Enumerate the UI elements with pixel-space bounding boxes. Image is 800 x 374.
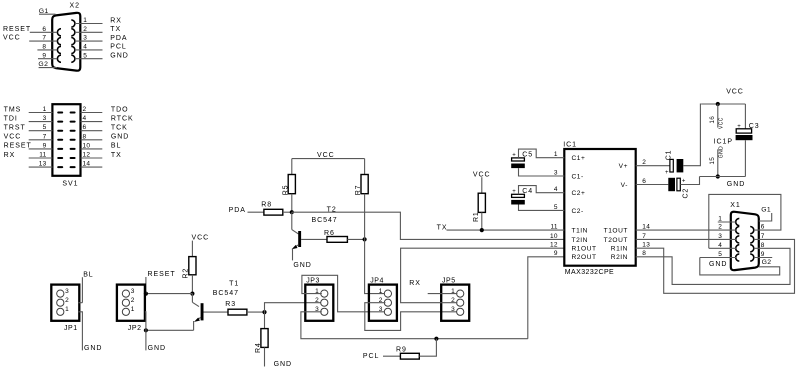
IC1 pin 13 R1IN: [611, 242, 650, 253]
svg-text:G2: G2: [38, 61, 48, 68]
X2 pin 5 contact: [71, 55, 75, 62]
node RESET junction at JP2: [144, 292, 148, 296]
X2 pin 7 contact: [57, 38, 61, 45]
net label RX: [4, 152, 16, 159]
IC1 value MAX3232CPE: [565, 269, 614, 276]
IC1 pin 12 R1OUT: [550, 242, 597, 253]
wire C4 minus to IC1 pin 5: [519, 205, 565, 211]
svg-text:GND: GND: [84, 345, 102, 352]
SV1 pin 3 wire: [29, 115, 53, 122]
capacitor C5: [511, 152, 533, 168]
wire T1 emitter to JP2 GND: [146, 329, 194, 331]
svg-text:4: 4: [83, 115, 87, 122]
X1 pin 6 contact: [750, 227, 754, 234]
SV1 pin 1 pad: [57, 112, 63, 114]
SV1 pin 12 pad: [70, 157, 76, 159]
X2 shield pin G2: [38, 61, 57, 68]
svg-text:GND: GND: [718, 146, 724, 158]
wire IC1 pin 14 to X1 pin 2: [636, 224, 736, 231]
SV1 pin 8 pad: [70, 139, 76, 141]
svg-text:R1OUT: R1OUT: [572, 246, 597, 253]
SV1 pin 14 wire: [81, 161, 103, 168]
svg-text:8: 8: [642, 250, 646, 257]
svg-text:GND: GND: [110, 53, 128, 60]
net label TMS: [4, 106, 22, 113]
resistor R4: [255, 329, 268, 353]
resistor R9: [396, 346, 419, 359]
svg-text:6: 6: [761, 224, 765, 231]
svg-text:10: 10: [550, 233, 558, 240]
X2 pin 6 wire / net RESET: [3, 26, 57, 33]
svg-text:+: +: [512, 152, 516, 158]
IC1 pin 9 R2OUT: [554, 250, 597, 261]
net label TDO: [111, 106, 129, 113]
junction R9 on PCL rail: [434, 337, 438, 341]
SV1 pin 6 wire: [81, 124, 103, 131]
SV1 pin 8 wire: [81, 133, 103, 140]
net label PDA: [110, 35, 127, 42]
wire X1 pin 5 to GND / G2: [700, 251, 780, 275]
svg-text:2: 2: [131, 297, 135, 304]
svg-text:7: 7: [42, 35, 46, 42]
svg-text:TCK: TCK: [111, 125, 128, 132]
svg-text:RESET: RESET: [3, 26, 31, 33]
wire C5 minus to IC1 pin 3: [519, 168, 565, 176]
svg-text:R9: R9: [396, 346, 407, 353]
power symbol IC1P designator: [714, 138, 733, 145]
X2 pin 4 contact: [71, 46, 75, 53]
IC1 pin 5 C2-: [554, 204, 584, 215]
net label VCC (T1 stage): [192, 235, 210, 242]
wire T2 base to R6: [301, 238, 327, 240]
wire C5 plus to IC1 pin 1: [519, 149, 565, 158]
wire R3 to node D: [247, 311, 265, 313]
net label PDA: [229, 207, 246, 214]
net label RESET (JP2): [146, 271, 176, 293]
SV1 pin 7 wire: [29, 133, 53, 140]
wire R1OUT to JP5 pin 2: [401, 248, 565, 303]
net label PCL: [363, 353, 379, 360]
svg-text:+: +: [665, 170, 669, 176]
svg-text:1: 1: [718, 216, 722, 223]
resistor R6: [324, 230, 347, 243]
svg-text:IC1: IC1: [563, 141, 577, 148]
svg-text:BL: BL: [83, 272, 93, 279]
svg-text:R7: R7: [355, 185, 362, 196]
X1 pin 2 contact: [736, 227, 740, 234]
svg-text:9: 9: [761, 251, 765, 258]
wire JP3 pin 1 loop to JP4 pin 3: [302, 275, 390, 312]
connector X1 label: [730, 202, 740, 209]
net label VCC (T2 stage): [317, 152, 335, 159]
svg-text:R5: R5: [282, 185, 289, 196]
X2 pin 7 wire / net VCC: [3, 35, 57, 42]
svg-text:TDI: TDI: [4, 115, 18, 122]
wire JP4 pin 2 to JP5 pin 3: [365, 303, 458, 331]
resistor R2: [183, 257, 196, 279]
wire C4 plus to IC1 pin 4: [519, 186, 565, 195]
connector X1 body: [731, 212, 759, 270]
svg-text:1: 1: [554, 151, 558, 158]
junction IC1P pin 15: [716, 174, 720, 178]
wire IC1 pin 8 to X1 pin 8: [636, 242, 790, 285]
svg-text:JP2: JP2: [128, 325, 142, 332]
connector X2 body: [52, 13, 80, 71]
X2 pin 3 wire: [75, 35, 103, 42]
svg-text:JP5: JP5: [442, 277, 456, 284]
svg-text:13: 13: [39, 161, 47, 168]
SV1 pin 10 wire: [81, 142, 103, 149]
svg-text:12: 12: [550, 242, 558, 249]
svg-text:R2OUT: R2OUT: [572, 254, 597, 261]
svg-text:6: 6: [642, 178, 646, 185]
wire VCC to R5: [291, 159, 293, 175]
net label GND: [110, 53, 128, 60]
capacitor C2: [668, 178, 689, 199]
IC1 pin 8 R2IN: [611, 250, 647, 261]
svg-text:TX: TX: [111, 152, 122, 159]
pin header SV1 body: [52, 104, 80, 176]
IC1 pin 10 T2IN: [550, 233, 588, 244]
wire R5 to node A: [291, 194, 293, 213]
svg-text:T1IN: T1IN: [572, 228, 589, 235]
svg-text:9: 9: [554, 250, 558, 257]
X2 pin 2 wire: [75, 26, 103, 33]
IC1 designator: [563, 141, 577, 148]
X1 pin 4 contact: [736, 245, 740, 252]
svg-text:1: 1: [379, 288, 383, 295]
pin header SV1 label: [62, 180, 78, 187]
X1 pin 9 stub wire: [754, 251, 772, 258]
svg-text:11: 11: [39, 152, 46, 159]
jumper JP4: [369, 277, 397, 320]
wire VCC to R1: [481, 177, 483, 193]
svg-text:T1OUT: T1OUT: [604, 228, 628, 235]
svg-text:T2: T2: [327, 206, 337, 213]
wire JP1 pin 1 to GND: [79, 312, 83, 351]
svg-text:GND: GND: [727, 181, 745, 188]
IC1 pin 6 V-: [621, 178, 647, 189]
svg-text:9: 9: [42, 52, 46, 59]
SV1 pin 9 wire: [29, 142, 53, 149]
X1 pin 5 contact: [736, 254, 740, 261]
net label GND (X1): [709, 261, 727, 268]
svg-text:R2: R2: [183, 268, 190, 279]
wire node C to JP2 pin 3: [144, 293, 192, 295]
SV1 pin 5 wire: [29, 124, 53, 131]
wire node D to R4: [264, 312, 266, 329]
svg-text:4: 4: [554, 186, 558, 193]
IC1 pin 1 C1+: [554, 151, 586, 162]
svg-text:5: 5: [83, 52, 87, 59]
SV1 pin 11 wire: [29, 152, 53, 159]
jumper JP5: [441, 277, 469, 320]
svg-text:6: 6: [83, 124, 87, 131]
svg-text:VCC: VCC: [726, 88, 744, 95]
svg-text:X2: X2: [70, 3, 80, 10]
svg-text:R1IN: R1IN: [611, 246, 628, 253]
svg-text:C2: C2: [683, 188, 690, 199]
svg-text:4: 4: [718, 242, 722, 249]
svg-text:GND: GND: [148, 345, 166, 352]
net label BL (JP1): [82, 272, 93, 303]
resistor R1: [473, 193, 485, 222]
capacitor C4: [511, 188, 533, 204]
junction R1 on TX line: [480, 228, 484, 232]
net label TDI: [4, 115, 18, 122]
svg-text:5: 5: [718, 251, 722, 258]
wire VCC to R2: [191, 241, 193, 257]
SV1 pin 7 pad: [57, 139, 63, 141]
svg-text:VCC: VCC: [192, 235, 210, 242]
wire R6 to node B: [347, 238, 364, 240]
svg-text:GND: GND: [709, 261, 727, 268]
svg-text:8: 8: [761, 242, 765, 249]
svg-text:V-: V-: [621, 182, 628, 189]
svg-text:RESET: RESET: [4, 143, 32, 150]
SV1 pin 13 wire: [29, 161, 53, 168]
svg-text:TDO: TDO: [111, 106, 129, 113]
svg-text:T2OUT: T2OUT: [604, 237, 628, 244]
svg-text:3: 3: [65, 288, 69, 295]
svg-text:10: 10: [83, 142, 91, 149]
svg-text:15: 15: [709, 157, 716, 165]
svg-text:1: 1: [43, 106, 47, 113]
wire IC1 pin 7 to X1 pin 3: [636, 233, 736, 240]
wire IC1 pin 13 to X1 pin 7: [636, 233, 795, 293]
X2 pin 4 wire: [75, 44, 103, 51]
IC1 pin 4 C2+: [554, 186, 586, 197]
svg-text:+: +: [737, 124, 741, 130]
net label RTCK: [111, 115, 134, 122]
X2 pin 8 wire: [37, 44, 57, 51]
net label RX: [110, 17, 122, 24]
svg-text:12: 12: [83, 152, 91, 159]
svg-text:11: 11: [550, 224, 557, 231]
svg-text:JP4: JP4: [370, 277, 384, 284]
svg-text:BC547: BC547: [213, 290, 239, 297]
svg-text:TX: TX: [110, 26, 121, 33]
svg-text:RX: RX: [409, 280, 421, 287]
X1 pin 1 stub wire: [718, 216, 736, 223]
T2 designator: [312, 206, 338, 224]
svg-text:GND: GND: [293, 262, 311, 269]
net label RESET: [4, 143, 32, 150]
wire node B to JP4 pin 1: [365, 239, 386, 293]
wire C3 to GND rail: [744, 140, 746, 176]
wire R4 to GND: [264, 347, 266, 366]
SV1 pin 2 wire: [81, 106, 103, 113]
net label TX (IC1): [437, 225, 448, 232]
svg-text:C2+: C2+: [572, 190, 586, 197]
net label VCC (R1): [473, 171, 491, 178]
connector X2 label: [70, 3, 80, 10]
wire TX to IC1 pin 11: [447, 229, 565, 231]
IC1 pin 7 T2OUT: [604, 233, 647, 244]
svg-text:3: 3: [718, 233, 722, 240]
wire PDA to R8: [248, 211, 264, 213]
capacitor C3: [736, 123, 760, 140]
wire BL to JP1 pin 2: [79, 302, 83, 304]
svg-text:C2-: C2-: [572, 208, 584, 215]
svg-text:TMS: TMS: [4, 106, 22, 113]
svg-text:G2: G2: [762, 259, 772, 266]
svg-text:PDA: PDA: [229, 207, 246, 214]
svg-text:14: 14: [642, 224, 650, 231]
svg-text:T2IN: T2IN: [572, 237, 589, 244]
net label TRST: [4, 125, 26, 132]
svg-text:GND: GND: [111, 134, 129, 141]
X1 pin 3 contact: [736, 236, 740, 243]
svg-text:7: 7: [642, 233, 646, 240]
svg-text:VCC: VCC: [718, 117, 724, 129]
svg-text:5: 5: [554, 204, 558, 211]
svg-text:PCL: PCL: [363, 353, 379, 360]
net label RX (JP5): [409, 280, 421, 287]
svg-text:3: 3: [83, 35, 87, 42]
jumper JP2: [117, 285, 145, 333]
net label GND (T2 emitter): [293, 262, 311, 269]
svg-text:2: 2: [83, 26, 87, 33]
wire JP3 pin 3 to PCL rail: [301, 312, 528, 339]
node D junction: [262, 310, 266, 314]
X2 shield pin G1: [39, 8, 56, 15]
svg-text:2: 2: [83, 106, 87, 113]
svg-text:TRST: TRST: [4, 125, 26, 132]
wire R9 up to PCL rail: [419, 339, 436, 357]
svg-text:X1: X1: [730, 202, 740, 209]
svg-text:3: 3: [43, 115, 47, 122]
svg-text:R4: R4: [255, 342, 262, 353]
SV1 pin 4 wire: [81, 115, 103, 122]
svg-text:3: 3: [379, 306, 383, 313]
svg-text:RESET: RESET: [148, 271, 176, 278]
svg-text:7: 7: [761, 233, 765, 240]
resistor R5: [282, 175, 295, 196]
svg-text:GND: GND: [274, 361, 292, 368]
net label PCL: [110, 44, 126, 51]
IC1 pin 11 T1IN: [550, 224, 588, 235]
svg-text:RX: RX: [110, 17, 122, 24]
net label VCC: [4, 134, 22, 141]
svg-text:1: 1: [83, 17, 87, 24]
node B junction: [363, 237, 367, 241]
wire R2 to node C: [191, 275, 193, 294]
net label GND (IC1P): [727, 181, 745, 188]
X1 pin 7 contact: [750, 236, 754, 243]
svg-text:PCL: PCL: [110, 44, 126, 51]
wire T1 base to R3: [204, 311, 229, 313]
svg-text:JP1: JP1: [64, 325, 78, 332]
svg-text:C5: C5: [522, 152, 533, 159]
net label GND (JP1): [84, 345, 102, 352]
IC1P pin 16 VCC stub: [709, 104, 724, 129]
svg-text:C1-: C1-: [572, 173, 584, 180]
X1 pin 1 contact: [736, 218, 740, 225]
wire IC1 pin 6 to C2: [636, 184, 669, 186]
svg-text:BL: BL: [111, 143, 121, 150]
SV1 pin 1 wire: [29, 106, 53, 113]
X2 pin 3 contact: [71, 38, 75, 45]
wire X1 pin 4 loop to X1 pin 6: [709, 194, 781, 249]
wire JP2 pin 1 to GND: [145, 312, 146, 351]
wire node A to T2IN (via bend): [292, 212, 565, 239]
svg-text:RX: RX: [4, 152, 16, 159]
SV1 pin 10 pad: [70, 148, 76, 150]
X2 pin 9 contact: [57, 55, 61, 62]
wire VCC rail: [702, 103, 746, 105]
SV1 pin 5 pad: [57, 130, 63, 132]
wire IC1 pin 2 to C1: [636, 165, 670, 167]
wire PCL rail to R2OUT: [528, 257, 565, 339]
SV1 pin 13 pad: [57, 166, 63, 168]
junction T1 emitter / JP2 GND: [144, 328, 148, 332]
net label GND: [111, 134, 129, 141]
wire R1 to TX line: [481, 212, 483, 230]
SV1 pin 6 pad: [70, 130, 76, 132]
svg-text:G1: G1: [761, 206, 771, 213]
jumper JP1: [51, 285, 79, 333]
svg-text:9: 9: [43, 142, 47, 149]
svg-text:VCC: VCC: [3, 35, 21, 42]
svg-text:C1: C1: [666, 150, 673, 161]
net label VCC (IC1P): [726, 88, 744, 95]
svg-text:1: 1: [65, 306, 69, 313]
svg-text:SV1: SV1: [62, 180, 78, 187]
svg-text:C3: C3: [749, 123, 760, 130]
svg-text:BC547: BC547: [312, 217, 338, 224]
svg-text:6: 6: [42, 26, 46, 33]
SV1 pin 11 pad: [57, 157, 63, 159]
svg-text:C1+: C1+: [572, 155, 586, 162]
svg-text:2: 2: [718, 224, 722, 231]
svg-text:R6: R6: [324, 230, 335, 237]
resistor R7: [355, 175, 368, 196]
svg-text:7: 7: [43, 133, 47, 140]
SV1 pin 4 pad: [70, 121, 76, 123]
svg-text:R1: R1: [473, 211, 480, 222]
wire node D to JP3 pin 2: [265, 303, 322, 312]
capacitor C1: [665, 150, 683, 176]
svg-text:2: 2: [315, 297, 319, 304]
wire C1 to VCC rail: [683, 104, 702, 166]
svg-text:3: 3: [554, 169, 558, 176]
SV1 pin 12 wire: [81, 152, 103, 159]
junction IC1P pin 16: [716, 102, 720, 106]
net label TX: [110, 26, 121, 33]
wire VCC rail T2: [292, 158, 365, 160]
wire C2 to GND rail: [680, 177, 699, 185]
X2 pin 1 contact: [71, 20, 75, 27]
svg-text:14: 14: [83, 161, 91, 168]
IC1 pin 3 C1-: [554, 169, 584, 180]
net label GND (R4): [274, 361, 292, 368]
X2 pin 8 contact: [57, 46, 61, 53]
svg-text:13: 13: [642, 242, 650, 249]
wire RX stub to JP5 pin 1: [428, 293, 458, 295]
svg-text:PDA: PDA: [110, 35, 127, 42]
X1 pin 9 contact: [750, 254, 754, 261]
svg-text:2: 2: [642, 159, 646, 166]
resistor R8: [261, 201, 283, 215]
net label GND (JP2): [148, 345, 166, 352]
wire VCC rail to C3: [744, 104, 746, 129]
svg-text:TX: TX: [437, 225, 448, 232]
op-amp IC1 body: [564, 149, 635, 266]
svg-text:JP3: JP3: [306, 277, 320, 284]
svg-text:C4: C4: [522, 188, 533, 195]
X1 shield pin G2: [762, 259, 772, 266]
